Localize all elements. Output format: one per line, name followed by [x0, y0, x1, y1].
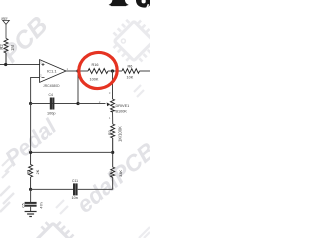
svg-text:R3: R3	[108, 130, 112, 135]
node junction R3 R4 row	[111, 151, 114, 154]
wire bottom row right	[78, 188, 113, 190]
wire op-amp output	[66, 70, 88, 72]
watermark pin dashes right middle	[134, 85, 144, 97]
potentiometer DRIVE1 B100K	[111, 99, 115, 112]
svg-text:10K: 10K	[127, 76, 134, 80]
wire pin2 to feedback node	[31, 78, 40, 104]
wire to C47n	[30, 189, 32, 202]
resistor R5 2K	[29, 152, 33, 189]
svg-text:1M: 1M	[10, 45, 15, 51]
svg-text:C11: C11	[72, 179, 78, 183]
watermark text Pedal (row 2)	[0, 113, 62, 170]
svg-text:C4: C4	[49, 93, 53, 97]
wire feedback cap row	[31, 103, 78, 105]
wire output down to wiper row	[77, 71, 79, 104]
svg-text:R4: R4	[109, 171, 113, 176]
resistor R3 1K/100K	[111, 124, 115, 152]
node junction bottom left	[29, 188, 32, 191]
svg-text:100p: 100p	[47, 111, 55, 115]
svg-text:1K/100K: 1K/100K	[118, 126, 123, 142]
node junction wiper row	[76, 102, 79, 105]
resistor R4 33K	[111, 152, 115, 189]
resistor R2 1M	[4, 39, 8, 65]
svg-text:R6: R6	[128, 64, 133, 68]
resistor R16 100K	[88, 69, 108, 74]
watermark chip icon U-wm1	[106, 13, 163, 70]
cropped glyph ring top right	[136, 0, 150, 8]
capacitor C4 100p	[51, 98, 53, 110]
watermark pin dashes bottom center	[56, 200, 68, 214]
svg-text:R2: R2	[0, 44, 4, 50]
svg-text:IC1.1: IC1.1	[47, 69, 57, 74]
node junction pin2 feedback	[29, 102, 32, 105]
node junction left mid	[29, 151, 32, 154]
wire pot top rail	[112, 71, 114, 99]
wire middle row	[31, 151, 113, 153]
svg-text:33K: 33K	[119, 170, 123, 177]
watermark text edalPCB (row 3)	[72, 137, 161, 218]
svg-text:47n: 47n	[40, 202, 44, 208]
node junction pot tap	[111, 69, 114, 72]
svg-text:2K: 2K	[36, 169, 40, 174]
svg-text:VREF: VREF	[1, 16, 8, 21]
op-amp IC1.1	[40, 60, 66, 83]
wire bottom row left	[31, 188, 73, 190]
wire wiper row to pot	[78, 103, 106, 105]
svg-text:JRC4580D: JRC4580D	[43, 84, 60, 88]
svg-text:R16: R16	[92, 63, 99, 67]
resistor R6 10K	[122, 69, 140, 74]
svg-text:B100K: B100K	[116, 109, 128, 113]
svg-text:R5: R5	[27, 170, 31, 175]
capacitor C5 47n	[25, 203, 37, 206]
node junction output	[76, 69, 79, 72]
watermark pin dashes left middle	[2, 159, 13, 178]
watermark text PCB (row 1)	[0, 11, 54, 68]
watermark chip icon corner bottom	[29, 214, 82, 240]
svg-text:DRIVE1: DRIVE1	[116, 104, 130, 108]
watermark smudge bottom right corner	[139, 227, 150, 238]
watermark pin dashes left lower	[0, 186, 14, 212]
op-amp plus minus marks	[42, 63, 45, 78]
wire R6 to edge	[140, 70, 151, 72]
wire pot to R3	[112, 112, 114, 124]
capacitor C11 10n	[74, 183, 76, 195]
wire left rail mid	[30, 104, 32, 153]
VREF supply symbol	[3, 20, 10, 38]
node junction VREF branch	[4, 63, 7, 66]
svg-text:C5: C5	[22, 203, 26, 207]
ground	[25, 212, 37, 217]
wire R16 to R6	[108, 70, 122, 72]
pot wiper arrow	[107, 103, 111, 107]
wire pin3 row	[0, 64, 40, 66]
annotation red ellipse around R16	[76, 49, 120, 91]
wire cap to ground	[30, 207, 32, 212]
svg-text:100K: 100K	[90, 77, 99, 81]
svg-text:10n: 10n	[72, 196, 78, 200]
cropped glyph dome top	[109, 0, 129, 6]
